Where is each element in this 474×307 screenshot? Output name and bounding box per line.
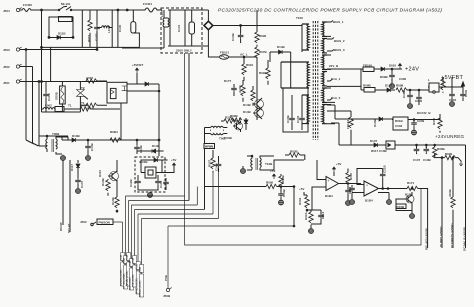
wire bus3 bbox=[129, 200, 190, 202]
dashed box 230V ONLY bbox=[161, 8, 202, 53]
wire bus4 bbox=[132, 187, 198, 206]
svg-text:L100: L100 bbox=[160, 10, 164, 17]
resistor R091 bbox=[242, 63, 254, 81]
+5VFBT label bbox=[441, 75, 465, 93]
resistor R090 bbox=[255, 27, 267, 47]
row4: diode D107 bbox=[339, 139, 386, 147]
wire op2 out bbox=[379, 188, 408, 190]
capacitor C104 bbox=[150, 175, 163, 190]
wire bridge + output bbox=[213, 24, 302, 26]
+24V label bbox=[391, 64, 419, 73]
wire right verticals bbox=[112, 10, 118, 47]
transformer secondary winding s2 bbox=[322, 39, 327, 53]
resistor R30B bbox=[433, 144, 446, 158]
wire mid vertical bbox=[81, 10, 83, 47]
capacitor C17B bbox=[94, 10, 100, 47]
resistor R300 bbox=[414, 114, 442, 133]
inductor L100 bbox=[160, 10, 169, 46]
wire top to bridge bbox=[168, 10, 208, 46]
small opto row4 bbox=[371, 141, 405, 153]
box MPWM bbox=[204, 144, 215, 149]
svg-text:R300: R300 bbox=[432, 117, 436, 125]
op-amp Q1B4 #1 bbox=[322, 177, 339, 199]
wire bridge - output down bbox=[208, 46, 219, 57]
svg-text:A64B: A64B bbox=[448, 188, 452, 197]
svg-text:R091: R091 bbox=[246, 63, 254, 67]
svg-text:TXD (A50B): TXD (A50B) bbox=[132, 274, 135, 287]
resistor R171 bbox=[407, 181, 418, 191]
wire J503 cross bbox=[96, 47, 98, 49]
wire bbox=[33, 9, 59, 11]
transformer secondary winding s4 bbox=[322, 72, 327, 86]
diode D147 bbox=[385, 84, 395, 93]
capacitor C101 bbox=[177, 10, 195, 46]
ferrite FB101 bbox=[220, 51, 230, 60]
transformer secondary winding s3 bbox=[322, 55, 327, 69]
svg-text:DCOP: DCOP bbox=[59, 222, 63, 231]
svg-text:P10B: P10B bbox=[133, 257, 135, 263]
title bbox=[218, 8, 442, 14]
label DC24V_S bbox=[417, 111, 431, 115]
wire row4 extend bbox=[405, 144, 466, 146]
svg-text:DCBIAS (A50B): DCBIAS (A50B) bbox=[139, 280, 142, 297]
terminal J50x bottom bbox=[163, 274, 172, 298]
capacitor C107b bbox=[413, 144, 421, 162]
label PPRDY line6 bbox=[136, 214, 141, 294]
wire AC_L node bbox=[229, 53, 258, 58]
diode D145 bbox=[270, 45, 291, 54]
svg-text:T100: T100 bbox=[296, 16, 303, 20]
capacitor C105 bbox=[163, 178, 169, 190]
resistor R030 bbox=[230, 114, 242, 122]
wire node bbox=[158, 84, 160, 156]
svg-text:C14B: C14B bbox=[139, 144, 143, 153]
wire J50B branch bbox=[168, 226, 294, 288]
resistor A04B bbox=[279, 174, 285, 189]
svg-text:B1A_4: B1A_4 bbox=[331, 77, 341, 81]
svg-text:C101: C101 bbox=[177, 24, 181, 32]
svg-text:D107: D107 bbox=[370, 139, 378, 143]
svg-text:RELAY0 (A50B): RELAY0 (A50B) bbox=[425, 228, 429, 250]
svg-text:BIAS_2: BIAS_2 bbox=[334, 39, 345, 43]
capacitor C14Bb bbox=[134, 140, 143, 154]
left connector J501 bbox=[3, 79, 42, 85]
label TXD line5 bbox=[132, 210, 137, 288]
bridge rectifier D100 bbox=[204, 10, 213, 46]
diode D148 bbox=[127, 82, 159, 86]
svg-text:J50B: J50B bbox=[163, 294, 171, 298]
capacitor C213 bbox=[345, 185, 352, 205]
svg-text:C10B: C10B bbox=[90, 142, 94, 151]
wire left lower verticals bbox=[63, 158, 70, 232]
wire bus5 bbox=[135, 209, 205, 211]
transformer T100 primary winding bottom bbox=[281, 62, 309, 88]
relay block ML101 bbox=[107, 82, 127, 103]
wire regulator top bbox=[141, 160, 174, 173]
svg-text:DLTMPTS (A50B): DLTMPTS (A50B) bbox=[450, 224, 454, 248]
svg-text:C19B: C19B bbox=[402, 89, 406, 98]
svg-text:C107: C107 bbox=[413, 158, 421, 162]
svg-text:L002: L002 bbox=[45, 104, 52, 108]
+5V op1 bbox=[333, 162, 342, 176]
svg-text:D091: D091 bbox=[389, 64, 397, 68]
svg-text:+5V: +5V bbox=[270, 169, 275, 173]
svg-text:R0B4: R0B4 bbox=[110, 130, 118, 134]
right vertical DC24V_B bbox=[463, 145, 467, 251]
svg-text:B1B4: B1B4 bbox=[325, 194, 333, 198]
wire into dashed box bbox=[159, 9, 162, 11]
label RXD line4 bbox=[129, 205, 134, 290]
resistor R0B4 bbox=[110, 130, 137, 142]
svg-text:R33A: R33A bbox=[304, 211, 308, 220]
capacitor C107 bbox=[75, 178, 84, 188]
svg-text:C14B: C14B bbox=[282, 188, 286, 197]
svg-text:SS0B: SS0B bbox=[55, 91, 59, 100]
svg-text:D11B: D11B bbox=[58, 32, 66, 36]
ground op2 под bbox=[378, 193, 392, 205]
wire bbox=[122, 46, 164, 48]
label IC10B bbox=[139, 160, 148, 164]
svg-text:FU400: FU400 bbox=[23, 3, 32, 7]
wire 5vfbt bbox=[439, 77, 452, 87]
svg-text:FU401: FU401 bbox=[143, 2, 152, 6]
ground op2 left bbox=[349, 185, 360, 205]
resistor R14C bbox=[111, 186, 119, 213]
capacitor C17C bbox=[43, 81, 51, 112]
lower mid transformer T10B bbox=[247, 155, 273, 170]
resistor R014 bbox=[42, 104, 121, 113]
label BIAS_4 bbox=[327, 77, 341, 81]
wire to fuse FU401 bbox=[118, 10, 143, 47]
diode D14Bb bbox=[137, 140, 164, 153]
svg-text:P10B: P10B bbox=[121, 254, 123, 260]
wire from left bus diagonal bbox=[26, 136, 47, 146]
svg-text:RXD (A50B): RXD (A50B) bbox=[129, 277, 132, 290]
junction node bbox=[280, 186, 295, 188]
svg-text:+5V: +5V bbox=[171, 158, 176, 162]
label BIAS_1 bbox=[327, 20, 344, 24]
inner box bbox=[170, 10, 185, 46]
diode D14C bbox=[150, 158, 168, 162]
transistor Q140 bbox=[243, 98, 264, 110]
diode D101 bbox=[62, 134, 137, 142]
capacitor C148 bbox=[231, 26, 243, 44]
capacitor C10Bb bbox=[423, 144, 432, 162]
op-amp Q1B4 #2 bbox=[360, 181, 379, 203]
wire feedback op2 bbox=[357, 169, 383, 185]
primary side: wire vertical bbox=[244, 57, 257, 120]
resistor R098 bbox=[396, 84, 429, 93]
wire bbox=[71, 9, 118, 11]
snubber box bbox=[49, 17, 73, 38]
label FU0B bbox=[224, 136, 233, 140]
wire relay bottom bus bbox=[42, 111, 81, 113]
wire R033 to opamp bbox=[304, 186, 312, 210]
ground T10B bbox=[241, 166, 246, 174]
label BIAS_5 bbox=[327, 96, 341, 100]
ground bbox=[86, 155, 91, 161]
resistor R(snubber) bbox=[59, 17, 73, 22]
resistor R037 bbox=[208, 150, 216, 173]
wire row2 bbox=[361, 69, 385, 90]
relay coil ML101 bbox=[131, 10, 140, 47]
capacitor C14B mid bbox=[278, 187, 286, 206]
resistor R03B top bbox=[285, 150, 305, 161]
svg-text:C14B: C14B bbox=[231, 32, 235, 41]
fuse FU401 bbox=[143, 2, 159, 12]
svg-text:B1A_5: B1A_5 bbox=[331, 96, 341, 100]
svg-text:R090: R090 bbox=[259, 34, 267, 38]
wire horizontal main bbox=[47, 136, 68, 140]
svg-text:D177: D177 bbox=[224, 79, 232, 83]
wire from R050 node down bbox=[293, 187, 295, 227]
label DCBIAS line7 bbox=[139, 219, 144, 298]
svg-text:J502: J502 bbox=[3, 65, 10, 69]
svg-text:D10B: D10B bbox=[373, 118, 377, 127]
svg-text:R14B: R14B bbox=[101, 177, 105, 186]
resistor R14B bbox=[101, 177, 110, 195]
wire bus7 bbox=[142, 172, 219, 219]
triac T2 bbox=[77, 81, 88, 112]
resistor R014b bbox=[80, 103, 107, 110]
regulator IC101 bbox=[141, 167, 162, 178]
svg-text:PPRDY (A50B): PPRDY (A50B) bbox=[136, 278, 139, 294]
capacitor C10B primary bbox=[286, 95, 295, 130]
left connector J503 bbox=[3, 47, 97, 52]
svg-text:DC24V_B: DC24V_B bbox=[417, 111, 431, 115]
connector J502 PWSON bbox=[80, 219, 113, 226]
varistor R077 bbox=[87, 10, 92, 47]
svg-text:C104: C104 bbox=[296, 115, 300, 123]
resistor R07B bbox=[255, 47, 268, 58]
svg-text:+24V: +24V bbox=[405, 67, 419, 73]
transformer secondary winding s5 bbox=[322, 88, 327, 102]
svg-text:+5V: +5V bbox=[299, 187, 304, 191]
svg-text:BIAS_1: BIAS_1 bbox=[333, 20, 344, 24]
wire relay top bus bbox=[42, 81, 108, 83]
transformer T100 primary winding lower2 bbox=[302, 95, 309, 124]
svg-text:C140: C140 bbox=[118, 24, 122, 32]
svg-text:C10B: C10B bbox=[423, 158, 432, 162]
svg-text:R30B: R30B bbox=[437, 147, 446, 151]
diode D110 bbox=[48, 32, 74, 40]
capacitor C104 primary bbox=[296, 95, 305, 130]
tap wires s bbox=[327, 36, 361, 123]
transistor Q141 bbox=[243, 107, 264, 119]
svg-text:R171: R171 bbox=[407, 181, 415, 185]
capacitor C200 bbox=[415, 90, 423, 105]
ground Q10B bbox=[410, 208, 415, 219]
svg-text:FB124: FB124 bbox=[346, 120, 350, 129]
label BIAS_2 bbox=[327, 38, 345, 44]
ground IC101 bbox=[148, 192, 153, 198]
ground C107 bbox=[76, 188, 81, 194]
svg-text:ML101: ML101 bbox=[61, 2, 71, 6]
svg-text:C10B: C10B bbox=[286, 114, 290, 123]
svg-text:24V_B: 24V_B bbox=[329, 64, 339, 68]
svg-text:R01B: R01B bbox=[395, 119, 404, 123]
svg-text:PWSON (A50B): PWSON (A50B) bbox=[120, 269, 123, 286]
resistor R200 bbox=[221, 116, 239, 124]
wire vertical buses from connectors bbox=[26, 50, 39, 147]
capacitor C21B bbox=[380, 164, 387, 189]
IC101 block box bbox=[135, 157, 165, 192]
svg-text:R033: R033 bbox=[298, 197, 302, 205]
svg-text:R07B: R07B bbox=[259, 50, 268, 54]
wire bus6 bbox=[138, 173, 213, 214]
+5V arrow bbox=[171, 158, 176, 168]
svg-text:NPWM (A50B): NPWM (A50B) bbox=[126, 271, 129, 286]
wire bbox=[256, 10, 258, 27]
svg-text:T1: T1 bbox=[68, 104, 72, 108]
resistor R033 bbox=[298, 195, 309, 212]
diode D10B row3 bbox=[335, 117, 393, 127]
resistor R143 bbox=[238, 80, 245, 102]
capacitor C091 bbox=[399, 69, 407, 81]
svg-text:PC320/325/FC230 DC CONTROLLER/: PC320/325/FC230 DC CONTROLLER/DC POWER S… bbox=[218, 8, 442, 14]
wire relay block bottom drop bbox=[120, 103, 122, 140]
transistor Q110 bbox=[98, 160, 119, 186]
svg-text:D14B: D14B bbox=[243, 110, 252, 114]
resistor R33A bbox=[304, 210, 313, 227]
fuse FU400 bbox=[20, 3, 33, 12]
svg-text:C003: C003 bbox=[395, 124, 403, 128]
resistor R092 bbox=[259, 60, 270, 85]
svg-text:D10B: D10B bbox=[72, 134, 81, 138]
svg-text:P10B: P10B bbox=[124, 257, 126, 263]
svg-text:C104: C104 bbox=[159, 180, 163, 188]
svg-text:L: L bbox=[428, 78, 430, 82]
label NPWM line3 bbox=[126, 201, 131, 287]
svg-text:D14B: D14B bbox=[152, 144, 161, 148]
svg-text:J502: J502 bbox=[80, 220, 87, 224]
svg-text:T002: T002 bbox=[219, 137, 226, 141]
wire op1 out bbox=[339, 183, 362, 185]
capacitor C040 bbox=[452, 87, 468, 101]
+5V mid2 bbox=[299, 187, 307, 195]
label DCOP bbox=[59, 222, 63, 231]
svg-text:D14B: D14B bbox=[277, 45, 286, 49]
ground C009 bbox=[412, 129, 417, 135]
resistor FB124 bbox=[346, 111, 353, 145]
diode zeners bbox=[238, 116, 248, 130]
resistor A64B bbox=[448, 157, 455, 210]
transformer T002 bbox=[205, 126, 228, 140]
resistor R16B bbox=[396, 199, 412, 211]
svg-text:+: + bbox=[366, 184, 368, 188]
right vertical RELAY0 bbox=[418, 189, 429, 251]
inductor L002 bbox=[42, 104, 65, 112]
transistor Q10B bbox=[404, 188, 414, 208]
right vertical DLIMIT bbox=[439, 158, 443, 248]
resistor R030 op1 bbox=[346, 169, 353, 186]
transistor Q200 bbox=[233, 121, 243, 132]
svg-text:P10B: P10B bbox=[137, 263, 139, 269]
transformer T001 bbox=[46, 132, 62, 154]
svg-text:+5VFBT: +5VFBT bbox=[132, 63, 143, 67]
svg-text:R017 C10B: R017 C10B bbox=[371, 149, 388, 153]
svg-text:D14B: D14B bbox=[243, 103, 252, 107]
svg-text:FB101: FB101 bbox=[220, 51, 229, 55]
svg-text:BIAS_3: BIAS_3 bbox=[334, 48, 345, 52]
relay contact ML101 bbox=[58, 2, 71, 11]
label SV_ON line2 bbox=[123, 196, 128, 289]
+5V arrow mid bbox=[270, 169, 276, 179]
right vertical DLTMPTS bbox=[450, 210, 454, 248]
left connector J502 bbox=[3, 64, 33, 69]
svg-text:SV_ON (A50B): SV_ON (A50B) bbox=[123, 273, 126, 289]
svg-text:J504: J504 bbox=[3, 9, 10, 13]
capacitor C090 bbox=[380, 69, 395, 89]
resistor R14x bbox=[251, 86, 255, 106]
svg-text:R16B: R16B bbox=[397, 205, 406, 209]
regulator L bbox=[428, 78, 447, 93]
capacitor C19B bbox=[402, 89, 413, 108]
svg-text:P0B: P0B bbox=[164, 274, 168, 281]
wire x189 bus bbox=[188, 53, 190, 201]
label +5VFBT small bbox=[132, 63, 143, 84]
svg-text:230V ONLY: 230V ONLY bbox=[176, 49, 192, 53]
capacitor C10B bbox=[85, 140, 94, 155]
svg-text:J501: J501 bbox=[3, 81, 10, 85]
label C140 bbox=[117, 9, 128, 32]
diode D091 bbox=[379, 64, 398, 72]
svg-text:R110: R110 bbox=[98, 170, 102, 177]
capacitor C009 bbox=[411, 119, 424, 130]
svg-text:T10B: T10B bbox=[265, 162, 273, 166]
capacitor C12B bbox=[129, 175, 150, 190]
svg-text:+5V: +5V bbox=[336, 162, 341, 166]
svg-text:PWSON: PWSON bbox=[99, 221, 110, 225]
capacitor C177 bbox=[224, 79, 237, 96]
inductor L101 bbox=[97, 25, 112, 33]
transformer T100 core bbox=[296, 16, 318, 140]
ferrite FB100 bbox=[361, 64, 379, 72]
label STLAT bbox=[67, 223, 71, 233]
svg-text:C090: C090 bbox=[399, 77, 407, 81]
svg-text:C17B: C17B bbox=[47, 92, 51, 101]
svg-text:IC10B: IC10B bbox=[139, 160, 148, 164]
wire MPWM drop bbox=[204, 136, 206, 210]
label PWSON line1 bbox=[120, 222, 125, 286]
capacitor C14E bbox=[215, 156, 222, 172]
termination stub bbox=[459, 162, 463, 166]
wire right from relay block bbox=[127, 90, 159, 92]
capacitor C214 bbox=[307, 210, 325, 223]
wire T10B to +5V bbox=[265, 156, 304, 170]
svg-text:+24VUNREG: +24VUNREG bbox=[435, 134, 464, 139]
+24VUNREG label bbox=[435, 134, 464, 139]
capacitor C204 bbox=[449, 87, 457, 107]
ground small left bbox=[61, 155, 66, 161]
svg-text:R14B: R14B bbox=[111, 196, 115, 205]
svg-text:C12B: C12B bbox=[129, 178, 133, 187]
wire bus1 PWSON bbox=[113, 221, 123, 223]
svg-text:MPWM: MPWM bbox=[205, 146, 213, 149]
svg-text:C040: C040 bbox=[464, 89, 468, 97]
transformer T100 primary winding top bbox=[302, 24, 309, 50]
wire right of T001 bbox=[62, 137, 68, 140]
node junction bbox=[136, 139, 138, 141]
svg-text:R09B: R09B bbox=[363, 84, 372, 88]
wire left branch bbox=[41, 10, 43, 112]
diode D117 bbox=[70, 160, 80, 178]
svg-text:R098: R098 bbox=[396, 84, 404, 88]
relay box K01B bbox=[392, 117, 414, 130]
svg-text:R0B4: R0B4 bbox=[80, 104, 88, 108]
wire tap drops bbox=[327, 105, 351, 145]
svg-text:J503: J503 bbox=[3, 48, 10, 52]
